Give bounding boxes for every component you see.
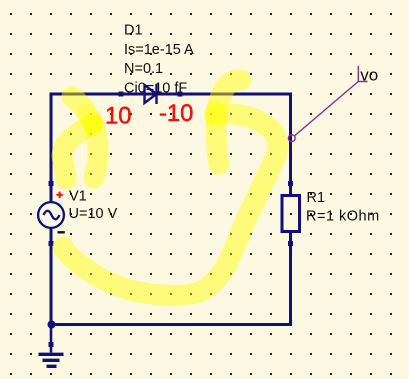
wire bottom: ground node to bottom-right corner bbox=[50, 323, 293, 326]
node vo label bracket bbox=[358, 66, 367, 82]
wire left lower: V1 minus terminal down to ground node bbox=[50, 228, 53, 326]
wire right lower: R1 bottom down to bottom-right corner bbox=[289, 232, 292, 326]
R1 pin 2 (bottom) bbox=[288, 241, 293, 246]
highlighter stroke: left leg of lambda bbox=[62, 124, 93, 179]
highlighter stroke: top-left arm bbox=[72, 97, 93, 124]
diode D1 pin 1 (anode) bbox=[119, 92, 124, 97]
V1 plus polarity mark bbox=[56, 192, 62, 198]
resistor R1 bbox=[282, 196, 300, 232]
highlighter overlap accent at bend bbox=[86, 112, 92, 127]
V1 pin 2 (minus) bbox=[49, 241, 54, 246]
ground pin square bbox=[49, 342, 54, 347]
wire left upper: V1 plus terminal up to top-left corner bbox=[50, 93, 53, 203]
highlighter overlap accent at hook neck bbox=[215, 108, 217, 121]
diode D1 pin 2 (cathode) bbox=[178, 92, 183, 97]
junction at ground node bbox=[48, 321, 56, 329]
ground bbox=[39, 326, 64, 366]
node vo leader line bbox=[294, 82, 358, 137]
svg-text:10: 10 bbox=[105, 103, 131, 130]
svg-text:R=1 kOhm: R=1 kOhm bbox=[306, 209, 380, 225]
svg-text:U=10 V: U=10 V bbox=[69, 206, 118, 222]
svg-text:-10: -10 bbox=[159, 100, 193, 127]
highlighter stroke: hook head bbox=[216, 80, 241, 164]
R1 pin 1 (top) bbox=[288, 181, 293, 186]
node vo attachment loop on wire bbox=[288, 135, 295, 142]
highlighter stroke: big loop sweep bbox=[63, 114, 278, 296]
svg-text:N=0.1: N=0.1 bbox=[124, 61, 163, 77]
V1 pin 1 (plus) bbox=[49, 181, 54, 186]
voltage source V1 bbox=[38, 202, 64, 228]
V1 minus polarity mark bbox=[58, 231, 65, 233]
wire right upper: top-right corner down to R1 top (node vo) bbox=[289, 93, 292, 196]
svg-text:V1: V1 bbox=[69, 189, 87, 205]
diode D1 bbox=[145, 84, 157, 104]
svg-text:Is=1e-15 A: Is=1e-15 A bbox=[124, 42, 194, 58]
svg-text:R1: R1 bbox=[307, 190, 326, 206]
wire top: from top-left corner through diode D1 to top-right corner bbox=[50, 93, 293, 96]
svg-text:D1: D1 bbox=[124, 23, 143, 39]
highlighter stroke: right leg of lambda bbox=[93, 123, 98, 178]
svg-text:vo: vo bbox=[360, 66, 378, 85]
